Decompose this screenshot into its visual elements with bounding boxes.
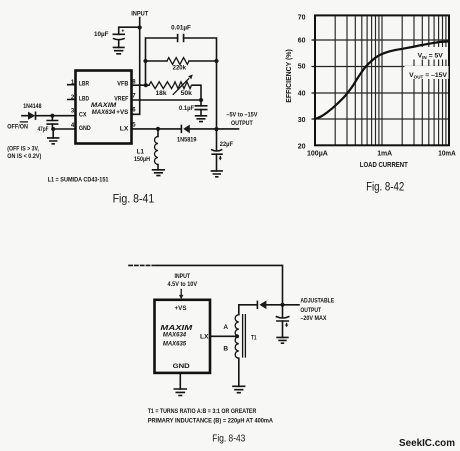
svg-text:47pF: 47pF [38, 126, 49, 133]
svg-text:+VS: +VS [175, 305, 187, 312]
svg-text:22µF: 22µF [220, 141, 233, 148]
svg-text:T1 = TURNS RATIO A:B = 3:1 OR: T1 = TURNS RATIO A:B = 3:1 OR GREATER [148, 408, 257, 415]
svg-text:LBR: LBR [79, 81, 89, 88]
svg-text:0.01µF: 0.01µF [171, 24, 191, 31]
svg-text:220k: 220k [173, 64, 187, 71]
svg-text:ADJUSTABLE: ADJUSTABLE [300, 298, 334, 305]
svg-text:Fig. 8-42: Fig. 8-42 [366, 181, 404, 193]
svg-text:ON IS < 0.2V): ON IS < 0.2V) [7, 153, 41, 160]
svg-text:50k: 50k [181, 90, 193, 97]
svg-text:4.5V to 10V: 4.5V to 10V [168, 281, 198, 288]
svg-text:+: + [121, 29, 124, 35]
svg-text:PRIMARY INDUCTANCE (B) = 220µH: PRIMARY INDUCTANCE (B) = 220µH AT 400mA [148, 417, 274, 424]
svg-text:70: 70 [298, 14, 306, 21]
svg-text:A: A [223, 324, 228, 331]
svg-text:60: 60 [298, 38, 306, 45]
svg-text:100µA: 100µA [307, 150, 328, 157]
svg-text:20: 20 [298, 144, 306, 151]
svg-text:GND: GND [79, 125, 91, 132]
svg-text:B: B [223, 345, 228, 352]
svg-text:SeekIC.com: SeekIC.com [399, 437, 455, 449]
svg-text:1N5819: 1N5819 [177, 137, 197, 144]
svg-text:OUTPUT: OUTPUT [300, 307, 321, 314]
svg-text:18k: 18k [156, 90, 168, 97]
svg-text:+VS: +VS [116, 109, 128, 116]
svg-text:LOAD CURRENT: LOAD CURRENT [360, 162, 409, 169]
svg-text:1N4148: 1N4148 [23, 103, 42, 110]
svg-text:L1: L1 [137, 149, 145, 156]
svg-text:MAX634: MAX634 [163, 332, 186, 339]
svg-text:–20V MAX: –20V MAX [300, 315, 327, 322]
svg-text:0.1µF: 0.1µF [179, 105, 194, 112]
svg-text:L1 = SUMIDA CD43-151: L1 = SUMIDA CD43-151 [48, 176, 109, 183]
svg-text:LX: LX [200, 334, 209, 341]
svg-text:Fig. 8-41: Fig. 8-41 [113, 194, 155, 206]
svg-text:OUTPUT: OUTPUT [231, 120, 253, 127]
svg-text:–5V to –15V: –5V to –15V [226, 111, 258, 118]
svg-text:Fig. 8-43: Fig. 8-43 [212, 433, 245, 445]
svg-text:LBD: LBD [79, 95, 89, 102]
svg-text:1mA: 1mA [377, 150, 392, 157]
svg-text:(OFF IS > 3V,: (OFF IS > 3V, [7, 146, 39, 153]
svg-text:10mA: 10mA [438, 150, 455, 157]
svg-text:10µF: 10µF [94, 31, 109, 38]
svg-text:INPUT: INPUT [174, 273, 190, 280]
svg-text:50: 50 [298, 64, 306, 71]
svg-text:30: 30 [298, 117, 306, 124]
svg-text:VFB: VFB [117, 81, 128, 88]
svg-text:EFFICIENCY (%): EFFICIENCY (%) [286, 49, 293, 103]
svg-text:OFF/ON: OFF/ON [7, 123, 28, 130]
svg-text:GND: GND [173, 363, 190, 370]
svg-text:INPUT: INPUT [131, 11, 148, 18]
svg-text:T1: T1 [251, 335, 257, 342]
svg-text:CX: CX [79, 111, 87, 118]
svg-text:MAX634: MAX634 [92, 109, 116, 116]
svg-text:40: 40 [298, 90, 306, 97]
svg-text:MAX635: MAX635 [163, 340, 186, 347]
svg-text:VREF: VREF [114, 95, 128, 102]
svg-text:150µH: 150µH [134, 156, 150, 163]
svg-text:LX: LX [120, 126, 129, 133]
svg-text:VIN = 5V: VIN = 5V [418, 52, 444, 60]
